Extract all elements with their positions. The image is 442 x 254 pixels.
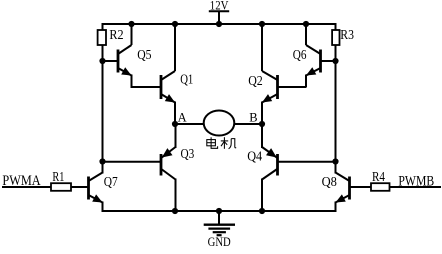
wire R4 to Q8 base bbox=[350, 186, 372, 188]
transistor Q6 collector diagonal bbox=[306, 45, 321, 54]
wire PWMB input bbox=[390, 186, 442, 188]
transistor Q6 emitter diagonal bbox=[306, 68, 321, 76]
transistor Q5 emitter diagonal bbox=[118, 68, 132, 76]
transistor Q1 bar bbox=[160, 75, 163, 99]
wire bottom ground rail bbox=[103, 210, 336, 212]
junction GND on bottom rail bbox=[216, 208, 222, 214]
svg-text:R3: R3 bbox=[340, 28, 354, 43]
wire top supply rail bbox=[103, 23, 336, 25]
transistor Q7 collector diagonal bbox=[89, 173, 103, 182]
svg-text:Q5: Q5 bbox=[137, 48, 151, 63]
wire Q3 collector to bottom rail bbox=[175, 179, 177, 212]
node B bbox=[259, 121, 265, 127]
wire Q4 base lead bbox=[278, 161, 336, 163]
transistor Q5 bar bbox=[117, 50, 120, 73]
junction Q1 collector on top rail bbox=[172, 21, 178, 27]
junction Q6 collector on top rail bbox=[303, 21, 309, 27]
wire Q8 emitter to bottom rail bbox=[335, 202, 337, 213]
wire Q3 base lead bbox=[103, 161, 162, 163]
transistor Q5 collector diagonal bbox=[118, 45, 132, 54]
junction right rail Q8 collector node bbox=[332, 158, 338, 164]
wire Q2 emitter to node B bbox=[261, 102, 263, 125]
transistor Q3 emitter diagonal bbox=[161, 147, 175, 158]
svg-text:R2: R2 bbox=[109, 28, 123, 43]
junction left rail Q7 collector node bbox=[99, 158, 105, 164]
wire Q6 emitter to Q2 base bbox=[305, 75, 307, 88]
svg-text:R1: R1 bbox=[52, 170, 64, 185]
transistor Q4 emitter diagonal bbox=[262, 147, 277, 158]
wire left rail mid segment bbox=[102, 45, 104, 162]
resistor R3 bbox=[332, 30, 339, 45]
transistor Q6 emitter arrow bbox=[306, 67, 316, 75]
transistor Q2 emitter diagonal bbox=[262, 94, 278, 103]
wire Q1 emitter to node A bbox=[174, 102, 176, 125]
wire node A to Q3 emitter bbox=[175, 124, 177, 148]
junction left rail Q5 base node bbox=[99, 58, 105, 64]
junction right rail Q6 base node bbox=[332, 58, 338, 64]
wire Q8 collector to right rail node bbox=[335, 162, 337, 174]
transistor Q5 emitter arrow bbox=[121, 67, 131, 75]
wire right rail mid segment bbox=[335, 45, 337, 162]
svg-text:A: A bbox=[178, 111, 187, 125]
wire Q5 collector to top rail bbox=[131, 24, 133, 45]
wire Q5 base lead bbox=[103, 60, 119, 62]
wire PWMA input bbox=[2, 186, 51, 188]
svg-text:Q1: Q1 bbox=[180, 73, 193, 88]
svg-text:Q3: Q3 bbox=[181, 147, 195, 162]
transistor Q3 bar bbox=[160, 154, 163, 176]
svg-text:Q4: Q4 bbox=[247, 150, 262, 165]
svg-text:GND: GND bbox=[208, 235, 231, 249]
wire Q7 collector to left rail node bbox=[102, 162, 104, 174]
wire 12V stub bbox=[218, 11, 220, 24]
svg-text:Q7: Q7 bbox=[104, 175, 118, 190]
wire Q6 base lead bbox=[321, 60, 336, 62]
svg-text:12V: 12V bbox=[210, 0, 229, 12]
junction Q5 collector on top rail bbox=[128, 21, 134, 27]
transistor Q6 bar bbox=[319, 50, 322, 73]
transistor Q3 collector diagonal bbox=[161, 169, 175, 180]
svg-text:B: B bbox=[249, 111, 257, 125]
transistor Q8 emitter arrow bbox=[336, 194, 346, 202]
wire R1 to Q7 base bbox=[71, 186, 89, 188]
junction Q4 collector on bottom rail bbox=[259, 208, 265, 214]
transistor Q1 collector diagonal bbox=[161, 71, 175, 80]
wire right rail upper segment bbox=[335, 23, 337, 31]
svg-text:R4: R4 bbox=[372, 170, 385, 185]
svg-text:Q8: Q8 bbox=[322, 175, 337, 190]
transistor Q7 bar bbox=[87, 177, 90, 200]
transistor Q4 emitter arrow bbox=[266, 148, 277, 157]
resistor R4 bbox=[371, 183, 390, 191]
junction Q2 collector on top rail bbox=[259, 21, 265, 27]
wire Q7 emitter to bottom rail bbox=[102, 202, 104, 213]
transistor Q8 emitter diagonal bbox=[336, 195, 350, 203]
wire Q1 collector to top rail bbox=[174, 24, 176, 71]
transistor Q2 collector diagonal bbox=[262, 71, 278, 80]
ground symbol bbox=[218, 211, 220, 225]
wire Q5 emitter to Q1 base bbox=[131, 75, 133, 88]
wire motor to node B bbox=[234, 123, 262, 125]
wire Q2 collector to top rail bbox=[261, 24, 263, 71]
wire node B to Q4 emitter bbox=[261, 124, 263, 148]
transistor Q7 emitter diagonal bbox=[89, 195, 103, 203]
transistor Q8 bar bbox=[348, 177, 351, 200]
svg-text:Q2: Q2 bbox=[248, 74, 263, 89]
transistor Q8 collector diagonal bbox=[336, 173, 350, 182]
transistor Q7 emitter arrow bbox=[92, 194, 102, 202]
transistor Q3 emitter arrow bbox=[162, 148, 173, 157]
label motor dianji bbox=[207, 137, 218, 148]
wire node A to motor bbox=[175, 123, 204, 125]
transistor Q1 emitter diagonal bbox=[161, 94, 175, 103]
transistor Q4 bar bbox=[276, 154, 279, 176]
junction 12V on top rail bbox=[216, 21, 222, 27]
resistor R2 bbox=[98, 30, 106, 45]
transistor Q4 collector diagonal bbox=[262, 169, 277, 180]
wire Q6 collector to top rail bbox=[305, 24, 307, 45]
power symbol 12V bar bbox=[209, 10, 229, 12]
svg-text:Q6: Q6 bbox=[293, 48, 307, 63]
wire left rail upper segment bbox=[102, 23, 104, 31]
wire Q4 collector to bottom rail bbox=[261, 179, 263, 212]
junction Q3 collector on bottom rail bbox=[172, 208, 178, 214]
node A bbox=[172, 121, 178, 127]
motor M ellipse bbox=[204, 111, 235, 136]
transistor Q2 bar bbox=[276, 75, 279, 99]
transistor Q1 emitter arrow bbox=[165, 94, 175, 102]
resistor R1 bbox=[51, 183, 71, 191]
transistor Q2 emitter arrow bbox=[262, 94, 272, 102]
